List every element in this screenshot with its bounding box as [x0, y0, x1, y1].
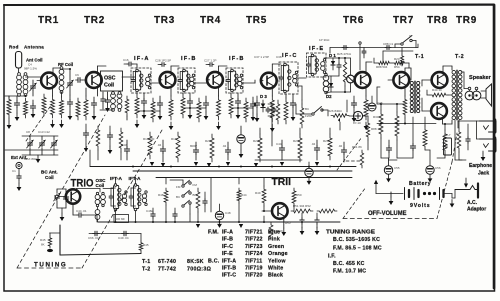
lower bus rail: [98, 221, 340, 223]
resistor R17b: [276, 100, 280, 124]
IFT-A 2 cap: [130, 194, 132, 196]
wire stage link 1: [137, 110, 160, 112]
svg-text:Earphone: Earphone: [469, 163, 492, 169]
resistor R45t: [139, 241, 143, 252]
svg-text:C6: C6: [75, 73, 79, 77]
OSC coil windings: [111, 93, 116, 98]
diode D2: [330, 80, 332, 92]
svg-text:100 MF: 100 MF: [116, 217, 126, 221]
ground C31: [205, 112, 207, 116]
svg-text:IFT-B: IFT-B: [222, 266, 236, 272]
ground C52: [316, 227, 318, 231]
svg-text:C13 C12: C13 C12: [38, 130, 50, 134]
svg-text:C46: C46: [377, 101, 383, 105]
svg-text:IF-B: IF-B: [222, 237, 233, 243]
speaker: [468, 87, 471, 90]
svg-text:T-2: T-2: [455, 54, 464, 60]
svg-text:R18: R18: [171, 137, 177, 141]
resistor R9: [151, 98, 155, 122]
svg-text:OFF-VOLUME: OFF-VOLUME: [368, 210, 407, 217]
IF transformer IF-B1 box: [178, 68, 195, 93]
svg-text:C88 C1: C88 C1: [383, 42, 394, 46]
wire left mid: [89, 150, 91, 167]
dashed pot diag: [337, 137, 362, 170]
ground TR11 emitter: [283, 228, 285, 232]
capacitor C38: [292, 100, 294, 103]
svg-text:C1: C1: [12, 169, 16, 173]
rail arrows: [150, 162, 154, 166]
band switch: [182, 185, 184, 187]
svg-text:F.M. 86.5 – 108 MC: F.M. 86.5 – 108 MC: [333, 246, 382, 252]
resistor R34m: [298, 134, 302, 162]
wire elco C48r: [349, 115, 353, 117]
capacitor C22: [195, 147, 197, 150]
transformer T-2: [452, 70, 456, 74]
battery B1: [376, 193, 403, 195]
wire top bus 2: [383, 50, 413, 52]
capacitor pair C: [267, 107, 269, 109]
resistor R31: [395, 112, 399, 140]
transistor TR7: [393, 72, 409, 88]
wire front-end node: [5, 95, 26, 97]
svg-text:1P 3KΩ: 1P 3KΩ: [319, 38, 330, 42]
svg-text:F.M.: F.M.: [208, 230, 219, 236]
diode D1: [332, 58, 334, 70]
resistor R20 h: [377, 61, 391, 64]
capacitor C33: [237, 98, 239, 101]
wire TR7 base: [388, 79, 394, 81]
wire TR3 emitter: [170, 86, 172, 96]
resistor R13: [217, 96, 221, 120]
dashed tuning right diagonal: [82, 130, 162, 268]
svg-text:C48a: C48a: [146, 209, 154, 213]
trimmer capacitor C6: [69, 81, 71, 83]
OSC coil lower windings 2: [95, 210, 100, 215]
wire TR8 base: [422, 79, 432, 81]
dashed tuning left diagonal: [17, 115, 105, 268]
variable capacitor C1c: [53, 141, 55, 143]
capacitor C34: [252, 101, 254, 104]
resistor R29m: [258, 134, 262, 162]
svg-text:IF-C: IF-C: [222, 244, 233, 250]
wire lower output: [381, 157, 389, 159]
capacitor C14 top: [127, 63, 129, 65]
wire IF-B2 out: [242, 82, 256, 84]
resistor R10: [169, 96, 173, 120]
resistor R4: [60, 97, 64, 118]
svg-text:.04: .04: [157, 143, 162, 147]
svg-text:Black: Black: [268, 273, 283, 279]
svg-text:Battery: Battery: [409, 181, 431, 187]
svg-text:7IF724: 7IF724: [245, 251, 263, 257]
trimmer capacitor C2: [32, 84, 34, 86]
svg-text:White: White: [268, 266, 283, 272]
resistor R14: [229, 94, 233, 118]
wire switch leads: [395, 43, 401, 45]
capacitor C3: [16, 100, 18, 103]
svg-text:R54: R54: [394, 65, 400, 69]
elco C46: [368, 103, 376, 111]
wire TR1 emitter: [52, 87, 54, 97]
bus rail 3: [156, 177, 352, 179]
wire TR11 base: [262, 210, 272, 212]
ground battery minus: [390, 192, 392, 197]
resistor R35m: [328, 134, 332, 160]
capacitor C52l: [316, 218, 318, 220]
IFT-A transformer 1: [114, 186, 119, 209]
svg-text:R44: R44: [241, 193, 247, 197]
svg-text:5D-7: 5D-7: [444, 133, 451, 137]
svg-text:Yellow: Yellow: [268, 258, 286, 264]
ground R8: [136, 120, 138, 124]
wire sub-rail drop: [140, 234, 142, 242]
wire detector bottom: [326, 91, 331, 94]
capacitor C48a: [152, 212, 154, 214]
svg-text:IF-A: IF-A: [222, 230, 233, 236]
resistor R24: [403, 96, 407, 118]
svg-text:B.C. 535–1605 KC: B.C. 535–1605 KC: [333, 237, 380, 243]
capacitor C49b: [122, 233, 124, 235]
svg-text:B.C. 455 KC: B.C. 455 KC: [333, 261, 365, 267]
svg-text:Blue: Blue: [268, 230, 280, 236]
svg-text:C37 1 2.5P: C37 1 2.5P: [254, 55, 269, 59]
capacitor C9: [93, 100, 95, 103]
svg-text:C66 .04: C66 .04: [88, 236, 99, 240]
svg-text:TR9: TR9: [456, 15, 477, 26]
OSC coil box: [101, 71, 123, 91]
svg-text:C44: C44: [276, 142, 282, 146]
wire tuning caps bottom: [22, 154, 58, 156]
resistor R18: [343, 58, 346, 86]
svg-text:R50: R50: [296, 193, 302, 197]
elco C35: [237, 135, 245, 143]
resistor R29r: [366, 120, 369, 140]
capacitor C5bc: [65, 194, 67, 197]
IF transformer IF-E coil form: [311, 56, 316, 74]
IF transformer IF-B2 secondary: [238, 77, 242, 81]
transistor TR11: [272, 203, 288, 219]
ratio detector secondary: [323, 75, 329, 81]
IF transformer IF-B2 box: [226, 68, 243, 93]
wire IF-C out: [297, 77, 307, 79]
wire left heavy vertical: [59, 225, 61, 255]
AC adaptor jack: [477, 184, 479, 198]
svg-text:BC Ant.: BC Ant.: [41, 170, 58, 175]
transformer T-1: [410, 81, 413, 84]
capacitor C42m: [353, 100, 355, 103]
wire TR10 emitter 2: [83, 214, 97, 216]
transistor TR9: [431, 103, 447, 119]
osc capacitor C13: [107, 98, 109, 100]
wire bc ant bottom: [57, 207, 66, 209]
junction dots lower: [115, 221, 117, 223]
wire TR6 emitter: [365, 86, 367, 96]
svg-text:C28 1P2.5P: C28 1P2.5P: [155, 59, 171, 63]
svg-text:R48: R48: [158, 193, 164, 197]
svg-text:Coil: Coil: [45, 175, 54, 180]
dashed linkage to switch: [437, 162, 452, 219]
resistor R25 feedback: [430, 93, 448, 97]
capacitor C5: [32, 103, 34, 106]
wire TR5 collector: [271, 64, 273, 75]
svg-text:R23: R23: [394, 57, 400, 61]
wire TR10 emitter: [72, 204, 74, 215]
elco C47 box: [114, 215, 129, 223]
svg-text:D2: D2: [326, 94, 332, 99]
ground C35: [240, 150, 242, 154]
svg-text:TR5: TR5: [246, 15, 267, 26]
svg-text:7IF719: 7IF719: [245, 266, 263, 272]
wire y104 rail: [377, 103, 405, 105]
capacitor C44e: [77, 214, 79, 216]
svg-text:C55: C55: [394, 166, 400, 170]
svg-text:IF-B: IF-B: [229, 56, 245, 62]
capacitor C45l: [204, 199, 206, 201]
svg-text:800P: 800P: [190, 144, 197, 148]
svg-text:TR6: TR6: [343, 15, 364, 26]
wire TR9 collector: [442, 117, 444, 124]
IF transformer IF-E tuning cap: [308, 62, 310, 64]
svg-text:.04: .04: [311, 142, 316, 146]
ground AC: [451, 200, 453, 204]
transistor TR2: [86, 72, 102, 88]
wire TR2 emitter: [97, 86, 99, 96]
resistor R8: [135, 94, 139, 118]
ground R10: [170, 122, 172, 126]
ground extras: [109, 146, 111, 150]
capacitor C24: [281, 145, 283, 148]
IF transformer IF-B2 tuning cap: [227, 78, 229, 80]
wire R24 to rail: [404, 118, 406, 124]
transistor TR5: [261, 73, 277, 89]
ground C3: [16, 113, 18, 117]
svg-text:R24: R24: [293, 139, 299, 143]
svg-text:IF-B: IF-B: [181, 56, 197, 62]
svg-text:R45: R45: [143, 243, 149, 247]
bus rail 1: [90, 166, 356, 168]
capacitor C31: [205, 100, 207, 103]
elco C48l: [215, 211, 223, 219]
ground R16: [271, 124, 273, 128]
svg-text:8Y-10: 8Y-10: [353, 121, 361, 125]
resistor R16: [270, 96, 274, 122]
resistor R5: [84, 96, 88, 120]
resistor R3b: [42, 94, 46, 116]
svg-text:Coil: Coil: [104, 83, 115, 89]
svg-text:B.C.: B.C.: [208, 258, 220, 264]
wire IF-B1 out: [194, 82, 208, 84]
wire speaker feed: [464, 88, 468, 90]
resistor R19b: [300, 104, 304, 128]
svg-text:R40 10: R40 10: [432, 88, 442, 92]
capacitor C88: [385, 47, 387, 49]
transistor TR8: [432, 72, 448, 88]
svg-text:IF-E: IF-E: [309, 46, 324, 52]
ground R13: [218, 122, 220, 126]
resistor R27r: [360, 150, 363, 168]
svg-text:7IF711: 7IF711: [245, 258, 262, 264]
svg-text:R22: R22: [253, 139, 259, 143]
svg-text:R16 500: R16 500: [143, 137, 155, 141]
resistor R12: [197, 98, 201, 122]
resistor R26m: [148, 132, 152, 159]
wire IF-A in: [122, 76, 135, 78]
osc resistor R7: [125, 96, 129, 116]
wire switch mid: [296, 113, 312, 115]
wire output ground row: [389, 159, 398, 161]
svg-text:TR3: TR3: [154, 15, 175, 26]
wire TR2 collector: [97, 66, 99, 75]
svg-text:R26 840Ω: R26 840Ω: [328, 109, 342, 113]
ground C34: [252, 113, 254, 117]
IF transformer IF-E secondary: [321, 62, 325, 66]
wire TR7 collector: [404, 68, 406, 74]
svg-text:R88 180: R88 180: [371, 127, 383, 131]
wire TR3 collector: [170, 66, 172, 74]
svg-text:Antenna: Antenna: [24, 45, 44, 50]
ground R1: [8, 121, 10, 125]
resistor R42 h: [317, 209, 337, 213]
IFT-A 2 secondary: [142, 194, 146, 198]
thermistor box: [444, 138, 452, 155]
resistor R40l: [292, 188, 296, 206]
wire mid x272: [271, 104, 273, 146]
svg-text:8K:5K: 8K:5K: [187, 259, 204, 265]
IF transformer IF-C tuning cap: [280, 75, 282, 77]
resistor R28m: [210, 134, 214, 162]
dashed pot linkage: [346, 160, 362, 162]
OSC coil lower windings: [95, 195, 100, 200]
svg-text:D 1: D 1: [329, 53, 336, 58]
ground C8: [69, 112, 71, 116]
junction dots rails: [132, 166, 134, 168]
wires top right: [359, 44, 361, 70]
svg-text:R20: R20: [205, 139, 211, 143]
ground R19: [365, 122, 367, 126]
transistor TR4: [207, 72, 223, 88]
wire cap pair: [268, 103, 274, 105]
wire IFT2 to rail: [135, 178, 137, 185]
wire detector top: [324, 57, 351, 59]
IF transformer IF-C coil form: [284, 65, 289, 91]
wire IFT1 to rail: [115, 178, 117, 185]
volume pot R26: [331, 114, 349, 118]
capacitor C22b: [85, 130, 87, 133]
resistor R38l: [196, 188, 200, 212]
resistor R8b: [96, 126, 100, 150]
ground C38: [292, 113, 294, 117]
capacitor C51: [412, 143, 414, 146]
earphone jack symbol: [480, 121, 497, 132]
IF transformer IF-C box: [279, 62, 298, 94]
wire AC arrow: [465, 178, 467, 184]
wire TR5 emitter: [271, 87, 273, 96]
svg-text:T-1: T-1: [415, 54, 424, 60]
wire IFT row: [103, 188, 113, 190]
svg-text:C56: C56: [435, 166, 441, 170]
resistor R27m: [176, 132, 180, 162]
svg-text:Rod: Rod: [9, 45, 19, 50]
svg-text:IF-E: IF-E: [222, 251, 233, 257]
capacitor C57: [467, 137, 469, 139]
dashed tuning bottom: [17, 267, 82, 269]
rail arrows lower: [196, 224, 200, 228]
svg-text:IFT-A: IFT-A: [110, 176, 123, 182]
svg-text:R51 304 R52: R51 304 R52: [293, 204, 311, 208]
svg-text:OSC: OSC: [104, 76, 116, 82]
svg-text:A.C.: A.C.: [467, 200, 478, 206]
rod antenna: [16, 52, 22, 69]
svg-text:C16: C16: [123, 58, 129, 62]
IF transformer IF-B2 coil form: [231, 71, 236, 90]
IF transformer IF-A secondary: [146, 77, 150, 81]
wire R39 top: [263, 178, 265, 187]
svg-text:Pink: Pink: [268, 237, 280, 243]
wire ext-ant row: [5, 149, 58, 151]
resistor R32: [423, 126, 427, 150]
capacitor C50: [388, 145, 390, 148]
svg-text:FWD: FWD: [305, 114, 313, 118]
svg-text:IFT-C: IFT-C: [222, 273, 236, 279]
IFT-A transformer 2: [134, 186, 139, 209]
wire pot area: [346, 100, 348, 112]
wire detector mid: [329, 75, 339, 77]
wire TR4 emitter: [218, 86, 220, 96]
wire T-2 bottom feed: [454, 120, 456, 160]
wire battery to AC jack: [451, 194, 453, 199]
resistor R19: [364, 96, 368, 120]
IF transformer IF-C secondary: [293, 74, 297, 78]
transistor TR6: [355, 72, 371, 88]
svg-text:R25 47KΩ: R25 47KΩ: [337, 52, 352, 56]
svg-text:IFT-A: IFT-A: [222, 258, 236, 264]
ground C33: [237, 111, 239, 115]
wire T-2 tap: [448, 94, 452, 96]
dashed bottom linkage: [343, 218, 437, 220]
dashed tuning gang FM: [26, 104, 52, 141]
wire stage link 3: [231, 107, 253, 109]
svg-text:F.M. 10.7 MC: F.M. 10.7 MC: [333, 269, 366, 275]
svg-text:R45: R45: [40, 238, 46, 242]
wire R25 left: [427, 94, 430, 96]
svg-text:7IF723: 7IF723: [245, 244, 263, 250]
svg-text:TR8: TR8: [427, 15, 448, 26]
capacitor C23: [227, 147, 229, 150]
svg-text:7IF721: 7IF721: [245, 230, 263, 236]
wire RF top: [62, 68, 71, 70]
capacitor C40: [338, 63, 340, 65]
svg-text:FM: FM: [176, 185, 181, 189]
capacitor C39m: [256, 100, 258, 103]
svg-text:7T-742: 7T-742: [158, 267, 176, 273]
svg-text:IF-C: IF-C: [282, 53, 298, 59]
capacitor C25: [316, 145, 318, 148]
resistor R46l: [269, 222, 273, 240]
ground C47: [308, 177, 310, 181]
capacitor C20: [126, 146, 128, 149]
IF transformer IF-B1 secondary: [190, 77, 194, 81]
resistor R2: [24, 98, 28, 118]
ground tuning: [37, 155, 39, 159]
svg-text:C27 1.2P: C27 1.2P: [204, 59, 217, 63]
wires to lower rail: [115, 211, 117, 223]
resistor R33: [443, 130, 447, 154]
svg-text:MAX 80Ω: MAX 80Ω: [24, 157, 38, 161]
ground C30: [189, 111, 191, 115]
wire sub-rail y233: [89, 233, 141, 235]
wire switch common: [210, 178, 212, 213]
svg-text:D 3: D 3: [260, 94, 267, 99]
